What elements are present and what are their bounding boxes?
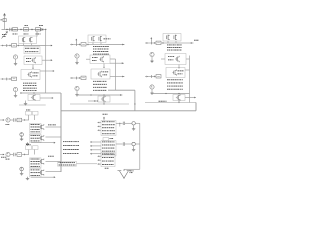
block2 ground gs2: [75, 93, 78, 96]
block2 bottom rail: [70, 103, 129, 105]
ic U3 pin l2: [98, 159, 102, 161]
net label wave_out: [58, 162, 77, 167]
block3 box3 out: [185, 97, 196, 99]
block3 bottom rail: [145, 102, 196, 104]
llB wire o2: [46, 171, 62, 173]
llB wire o3: [31, 176, 56, 178]
block2 corner v: [134, 90, 135, 111]
block2 tap t1: [103, 64, 104, 68]
block1 ground g3: [24, 101, 27, 106]
diode D1: [39, 25, 43, 31]
block1 transistor Q3 box: [28, 94, 54, 100]
block1 node b: [17, 45, 21, 46]
block3 node a: [151, 42, 156, 43]
block2 wire qc: [110, 76, 125, 78]
llB caps: [14, 153, 18, 157]
label funnel: [130, 171, 134, 174]
llB taps: [29, 150, 35, 155]
block2 cell X1 text: [93, 46, 109, 54]
block2 tap wires: [90, 43, 106, 45]
node j1: [119, 123, 120, 127]
wire label to U3: [77, 163, 98, 165]
block3 transistor Q1 box: [161, 54, 190, 65]
block3 out wire: [181, 40, 199, 44]
resistor R1: [13, 28, 18, 35]
block2 chain2 wire: [76, 94, 122, 96]
load O2: [132, 142, 140, 148]
block1 source Vs1: [13, 55, 17, 62]
cap C1: [123, 122, 132, 125]
block2 transistor Q3 box: [98, 96, 110, 105]
funnel symbol: [118, 169, 131, 178]
block2 port in2: [70, 77, 76, 80]
block1 tap t1: [32, 65, 33, 69]
block3 transistor Q3 box: [173, 94, 185, 103]
llA ground gB: [26, 142, 29, 145]
block1 resistor Rb2: [7, 77, 17, 80]
block3 supply stub: [150, 37, 152, 41]
block1 wire ext qa: [46, 45, 53, 47]
block2 mirror box M1 M2: [88, 35, 106, 43]
llB port: [0, 154, 5, 156]
block2 transistor Q1 box: [86, 55, 116, 64]
ic U2 label2: [63, 145, 101, 147]
block2 resistor Rb: [81, 43, 86, 46]
block1 cell X1 text: [24, 47, 40, 54]
llA source V2: [20, 133, 24, 138]
llA resistor: [17, 118, 22, 122]
wire hmid: [61, 110, 196, 112]
block3 mirror box M1 M2: [163, 34, 181, 42]
block3 source Vs1: [150, 52, 154, 59]
ll wire label oB: [48, 155, 54, 158]
block2 right bus: [115, 59, 117, 90]
block1 mirror box M1 M2: [19, 36, 37, 44]
ic U2 label4: [63, 153, 101, 155]
ic U2 out wire: [116, 143, 123, 145]
llA port: [0, 119, 5, 121]
ic U1 pin l1: [98, 122, 102, 124]
ic U2 body: [101, 141, 116, 156]
block1 bottom rail: [19, 104, 46, 106]
block3 port in2: [145, 75, 151, 78]
wire chain drop: [36, 31, 38, 36]
llB ground gA: [20, 172, 23, 175]
block2 node a2: [76, 77, 81, 78]
block3 transistor Q2 box: [166, 68, 190, 78]
block3 resistor Rb: [156, 41, 161, 44]
llA taps: [29, 115, 35, 120]
llA node: [22, 119, 29, 120]
block3 source Vs2: [150, 85, 154, 92]
llB wire o1: [46, 161, 62, 163]
block2 source Vs2: [75, 86, 79, 93]
block3 rail tap: [178, 100, 180, 103]
block2 node b: [86, 44, 90, 45]
block2 port in: [70, 43, 76, 46]
block2 wire90: [108, 89, 135, 91]
node n3: [31, 29, 32, 30]
block3 tap t1: [178, 65, 179, 69]
ic U3 body: [101, 153, 115, 167]
block1 node a: [7, 45, 12, 46]
ic U1 vdd stub: [103, 114, 108, 121]
llB resistor: [17, 153, 22, 157]
ic U2 top box: [103, 138, 113, 141]
llA wire o2: [46, 136, 62, 138]
llB cell B: [30, 169, 44, 177]
llB source V2: [20, 167, 24, 172]
load O1: [132, 122, 140, 128]
block2 label n5: [104, 38, 111, 41]
load O2 gnd: [132, 148, 135, 151]
llA caps: [14, 118, 18, 122]
ic U3 pin l1: [98, 155, 102, 157]
capacitor C0: [10, 28, 11, 32]
block2 resistor Rb2: [81, 76, 86, 79]
block2 cell X3 text: [93, 81, 107, 91]
regulator X0: [3, 19, 6, 22]
wire v1 bus: [60, 93, 62, 172]
llA mirror boxes: [26, 110, 39, 115]
block3 port in: [145, 42, 151, 45]
block2 ground gs1: [75, 61, 78, 64]
block1 chain2 wire: [20, 92, 61, 93]
block3 ground gs2: [150, 92, 153, 95]
block2 stub out: [88, 100, 98, 102]
llB node: [22, 154, 29, 155]
llA cell A: [30, 123, 44, 133]
block2 wire qb: [110, 62, 124, 64]
block2 node a: [76, 44, 81, 45]
node n4: [45, 29, 46, 30]
block2 transistor Q2 box: [91, 69, 110, 79]
wire input rail: [2, 29, 46, 31]
llA wire o3: [31, 142, 56, 144]
resistor R2: [24, 25, 29, 34]
wire v3 bottom: [124, 168, 140, 170]
llA ground gA: [20, 138, 23, 141]
ic U2 label1: [63, 141, 101, 143]
llA cell B: [30, 134, 44, 142]
ll wire label oA: [48, 124, 56, 127]
llA source Vin: [6, 118, 14, 125]
block1 cell X3 text: [23, 83, 37, 91]
power flag VDD: [3, 13, 6, 30]
block1 ground gs2: [14, 94, 17, 97]
block3 right bus: [189, 56, 191, 103]
ic U1 out wire: [116, 122, 123, 124]
wire v196: [195, 103, 197, 111]
ll port mid label: [1, 156, 6, 159]
llB cell A: [30, 158, 44, 168]
cap C2: [123, 142, 132, 145]
block1 tap wires: [21, 44, 46, 46]
node n2: [20, 29, 21, 30]
block3 resistor Rb2: [156, 75, 161, 78]
label net vloop: [159, 100, 167, 103]
block2 out wire: [106, 44, 125, 46]
ic U3 pin l3: [98, 163, 102, 165]
ic U1 body: [101, 121, 116, 136]
block1 transistor Q1 box: [24, 56, 53, 65]
llB source Vin: [6, 152, 14, 159]
block1 transistor Q2 box: [21, 70, 55, 80]
block1 vertical bus: [45, 30, 47, 94]
block2 source Vs1: [75, 54, 79, 61]
llB ground gB: [26, 177, 29, 180]
block3 cell X3 text: [167, 79, 183, 89]
block3 chain2 wire: [151, 93, 190, 94]
block1 port in2: [1, 78, 7, 81]
net label avdd: [1, 19, 3, 22]
block3 cell X1 text: [167, 45, 182, 51]
block3 tap wires: [165, 41, 181, 43]
block1 resistor Rb: [12, 44, 17, 47]
ic U1 pin l3: [98, 129, 102, 131]
llB mirror boxes: [26, 144, 39, 149]
llA wire o1: [46, 126, 62, 128]
ic U2 label3: [63, 149, 101, 151]
block3 node b: [161, 42, 165, 43]
load O1 gnd: [132, 127, 135, 130]
node n1: [6, 29, 7, 30]
resistor R3: [36, 28, 41, 35]
block1 source Vs2: [13, 87, 17, 94]
block1 ground gs1: [14, 62, 17, 65]
block1 port in: [1, 44, 7, 47]
block2 supply stub: [75, 39, 77, 43]
source I1: [2, 31, 8, 38]
label q9: [105, 167, 109, 170]
block3 node a2: [151, 76, 156, 77]
bus v3: [139, 123, 141, 169]
ic U1 pin l2: [98, 125, 102, 127]
block3 ground gs1: [150, 60, 153, 63]
